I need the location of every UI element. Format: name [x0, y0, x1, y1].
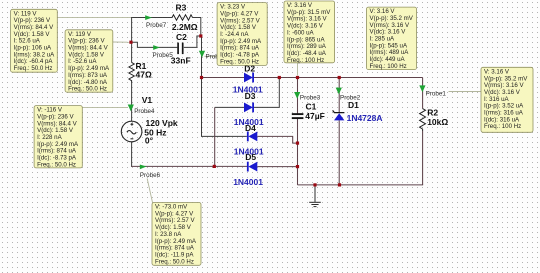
probe readout box 3 (Probe4): [34, 106, 82, 169]
probe readout box 4 (Probe8): [217, 3, 267, 66]
wire C2 right to node A: [184, 36, 201, 47]
svg-text:D1: D1: [348, 100, 359, 110]
capacitor C2: [178, 43, 183, 55]
probe3 arrow: [294, 92, 300, 99]
svg-text:Probe1: Probe1: [426, 90, 447, 97]
node C1 top junction: [296, 76, 299, 79]
probe2 arrow: [336, 88, 342, 95]
svg-text:1N4001: 1N4001: [233, 84, 263, 94]
svg-text:Probe7: Probe7: [146, 22, 167, 29]
svg-text:10kΩ: 10kΩ: [427, 117, 448, 127]
node D5 anode / C1 branch junction: [296, 165, 299, 168]
svg-text:Probe6: Probe6: [140, 172, 161, 179]
leader line box4 to Probe8: [205, 55, 218, 57]
probe readout box 7 (Probe1): [481, 67, 533, 132]
node C2-left junction: [129, 41, 132, 44]
junction dots: [129, 34, 341, 186]
resistor R2: [420, 109, 426, 131]
node D1 top junction: [338, 76, 341, 79]
leader line box3 to Probe4: [82, 106, 128, 108]
resistor R3: [172, 15, 193, 20]
probe8 arrow: [199, 51, 205, 58]
wire bottom rail: [298, 184, 424, 186]
probe readout box 8 (Probe6): [152, 203, 201, 266]
source V1: [121, 121, 142, 142]
wire plus rail left of D2: [202, 77, 245, 79]
resistor R1: [129, 63, 134, 83]
probe6 arrow: [140, 165, 147, 170]
svg-text:1N4001: 1N4001: [233, 177, 263, 187]
wire: left source column: [131, 18, 279, 167]
probe readout box 6 (Probe2): [367, 7, 417, 70]
diode D5: [247, 162, 257, 172]
zener diode D1: [334, 113, 344, 120]
node ground junction: [313, 183, 316, 186]
node D3 cathode / plus rail junction: [278, 76, 281, 79]
wire C2 left: [131, 42, 177, 47]
svg-text:33nF: 33nF: [171, 56, 191, 66]
leader line box8 to Probe6: [147, 179, 152, 203]
svg-text:1N4001: 1N4001: [234, 117, 264, 127]
node A / D2 anode junction: [200, 76, 203, 79]
wire R3 left: [131, 17, 172, 19]
svg-text:120 Vpk: 120 Vpk: [146, 118, 178, 128]
svg-text:V1: V1: [142, 95, 153, 105]
probe readout box 5 (Probe3): [284, 1, 335, 64]
diode D4: [247, 132, 257, 142]
leader line box2 to Probe5 node: [113, 41, 130, 43]
probe arrows: [128, 15, 426, 169]
probe4 arrow: [128, 105, 134, 112]
wire net B vertical: [214, 107, 216, 166]
probe1 arrow: [419, 85, 425, 92]
leader line box1 to Probe7: [57, 17, 145, 19]
wire D1 branch: [338, 78, 340, 113]
svg-text:47µF: 47µF: [305, 111, 325, 121]
svg-text:Probe4: Probe4: [134, 108, 155, 115]
svg-text:Probe3: Probe3: [300, 94, 321, 101]
wire net A vertical: [201, 36, 247, 136]
diode D3: [244, 103, 254, 113]
probe5 arrow: [153, 45, 160, 50]
capacitor C1: [292, 114, 304, 118]
wire plus rail D2 to R2 corner: [253, 77, 423, 79]
node A top junction: [199, 34, 202, 37]
wire V1 bottom down: [131, 142, 133, 167]
wire R1 bottom to V1 top: [131, 83, 133, 122]
probe readout box 2 (Probe5): [65, 30, 113, 93]
wire V1 return rail through D5: [131, 165, 247, 167]
node B / V1 return junction: [213, 165, 216, 168]
wire D5 anode to C1 branch: [257, 166, 297, 168]
leader line box7 to Probe1: [449, 91, 482, 93]
wire D3 cathode up to plus rail: [253, 78, 279, 108]
svg-text:0°: 0°: [145, 135, 154, 145]
wire: red nets: [131, 78, 423, 185]
node D4 anode / C1 branch junction: [296, 142, 299, 145]
probe readout box 1 (Probe7): [11, 9, 58, 72]
svg-text:R3: R3: [176, 2, 187, 12]
svg-text:47Ω: 47Ω: [136, 69, 152, 79]
wire C1 branch: [297, 78, 299, 114]
wire D3 anode to net B corner: [215, 106, 244, 108]
ground: [309, 185, 321, 207]
svg-text:C2: C2: [176, 32, 187, 42]
wire R2 branch down: [422, 78, 424, 109]
leader line box5 to Probe3 node: [297, 63, 299, 76]
svg-text:1N4728A: 1N4728A: [347, 113, 383, 123]
probe7 arrow: [145, 15, 152, 20]
wire R3 right to node A: [193, 18, 201, 37]
wire R3/C2 left node down to R1: [131, 18, 133, 63]
wire D4 anode jog to C1 branch: [257, 136, 297, 143]
node D1 bottom junction: [338, 183, 341, 186]
diode D2: [244, 73, 254, 83]
svg-text:2.2MΩ: 2.2MΩ: [172, 22, 198, 32]
svg-text:1N4001: 1N4001: [234, 147, 264, 157]
